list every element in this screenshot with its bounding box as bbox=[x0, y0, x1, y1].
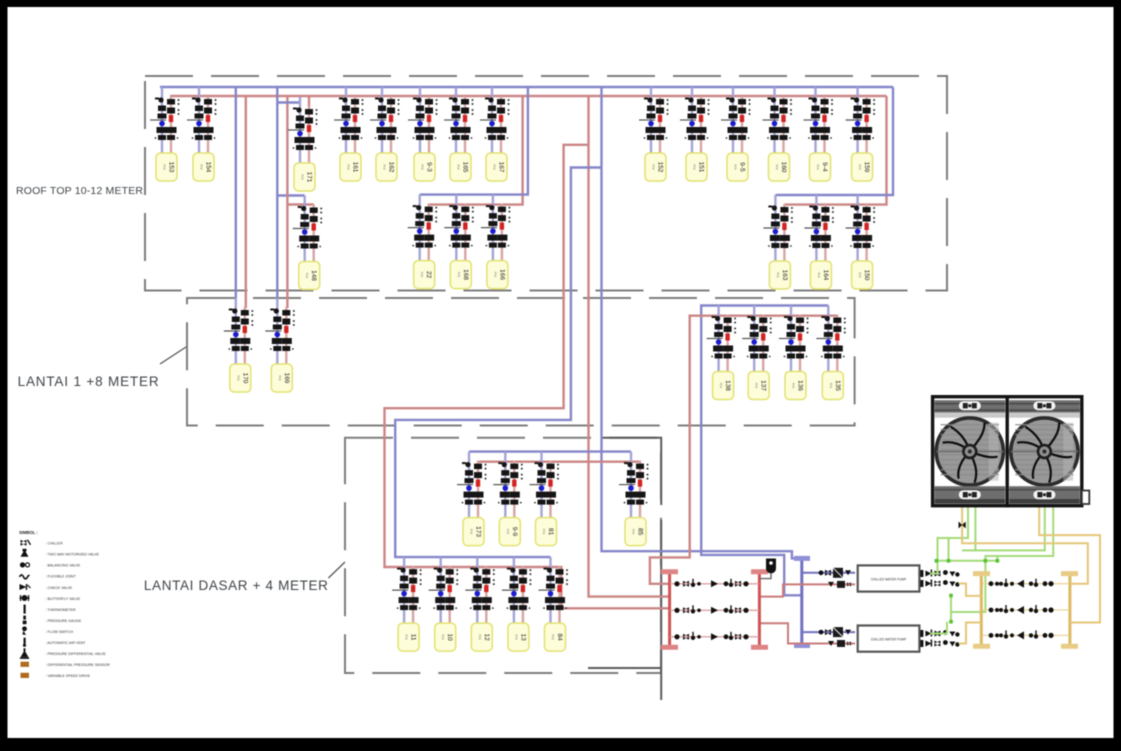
legend item VARIABLE SPEED DRIVE bbox=[21, 673, 30, 678]
pump2 discharge valves bbox=[920, 630, 959, 638]
FCU unit 11 bbox=[392, 557, 422, 651]
FCU unit 12 bbox=[465, 557, 495, 651]
legend item THERMOMETER bbox=[24, 605, 26, 614]
svg-text:FCU: FCU bbox=[163, 164, 167, 169]
yellow manifold row 2 valves bbox=[983, 609, 1068, 611]
svg-text:173: 173 bbox=[475, 526, 482, 537]
riser to FCU 170 (red) bbox=[245, 96, 247, 308]
svg-text:136: 136 bbox=[797, 380, 804, 391]
svg-text:FCU: FCU bbox=[236, 375, 240, 380]
green junction nodes bbox=[935, 559, 939, 563]
yellow manifold row 1 valves bbox=[983, 583, 1068, 585]
svg-text:: CHILLER: : CHILLER bbox=[46, 542, 64, 546]
svg-text:SIMBOL :: SIMBOL : bbox=[19, 530, 38, 535]
condenser green pipe chiller2 bbox=[951, 507, 1053, 612]
FCU unit 135 bbox=[816, 306, 846, 400]
FCU unit 163 bbox=[763, 195, 793, 289]
svg-text:: VARIABLE SPEED DRIVE: : VARIABLE SPEED DRIVE bbox=[46, 674, 91, 678]
lantai1 right group header loop (red) bbox=[650, 316, 839, 584]
FCU unit 167 bbox=[480, 87, 510, 181]
air cooled chiller 1 bbox=[933, 397, 1008, 506]
svg-text:168: 168 bbox=[462, 269, 469, 280]
svg-text:11: 11 bbox=[410, 634, 417, 641]
svg-text:161: 161 bbox=[352, 162, 359, 173]
riser to FCU 169 / branch FCU 148 (red) bbox=[287, 96, 313, 308]
manifold branch row 1 with valves bbox=[670, 583, 759, 585]
yellow pipe chiller1 drop bbox=[962, 507, 1088, 584]
ground floor loop (blue) feeding bottom row bbox=[395, 168, 601, 558]
svg-text:: TWO WAY MOTORIZED VALVE: : TWO WAY MOTORIZED VALVE bbox=[46, 553, 100, 557]
svg-text:167: 167 bbox=[498, 162, 505, 173]
air separator bbox=[766, 559, 776, 574]
svg-text:9-3: 9-3 bbox=[426, 162, 433, 172]
svg-text:FCU: FCU bbox=[858, 272, 862, 277]
FCU unit 168 bbox=[444, 195, 474, 289]
FCU unit 162 bbox=[370, 87, 400, 181]
svg-text:13: 13 bbox=[519, 633, 526, 641]
yellow pump1 discharge run bbox=[959, 584, 982, 596]
ground floor loop (red) feeding bottom row bbox=[385, 145, 670, 609]
svg-text:81: 81 bbox=[547, 528, 554, 536]
riser to FCU 169 / branch FCU 148 (blue) bbox=[277, 87, 304, 300]
yellow manifold row 3 valves bbox=[983, 634, 1068, 636]
svg-text:166: 166 bbox=[498, 269, 505, 280]
lantai 1 floor dashed boundary bbox=[187, 298, 855, 426]
legend item BALANCING VALVE bbox=[20, 562, 30, 567]
svg-text:85: 85 bbox=[637, 528, 644, 536]
svg-text:FCU: FCU bbox=[734, 164, 738, 169]
svg-text:FCU: FCU bbox=[542, 529, 546, 534]
svg-text:160: 160 bbox=[780, 162, 787, 173]
legend item PRESSURE DIFFERENTIAL VALVE bbox=[20, 648, 29, 659]
svg-text:9-4: 9-4 bbox=[821, 162, 828, 172]
svg-text:FCU: FCU bbox=[792, 383, 796, 388]
svg-text:153: 153 bbox=[168, 162, 175, 173]
FCU unit 9-5 bbox=[721, 87, 751, 181]
chiller right side tab bbox=[1082, 491, 1090, 505]
svg-text:FCU: FCU bbox=[470, 529, 474, 534]
riser to roof row2 group (blue) bbox=[420, 87, 528, 195]
svg-text:FCU: FCU bbox=[693, 164, 697, 169]
red distribution manifold left pipe bbox=[668, 572, 671, 648]
manifold branch row 2 with valves bbox=[670, 609, 759, 611]
branch link to FCU 171 (blue) bbox=[277, 101, 300, 103]
svg-text:FCU: FCU bbox=[441, 634, 445, 639]
svg-text:FCU: FCU bbox=[347, 164, 351, 169]
roof top floor dashed boundary bbox=[145, 76, 947, 291]
extra green risers bbox=[949, 538, 998, 561]
main trunk riser (red) down to plant room bbox=[589, 96, 670, 597]
legend item CHILLER bbox=[21, 540, 31, 546]
legend item FLEXIBLE JOINT bbox=[20, 575, 30, 579]
yellow condenser manifold left pipe bbox=[980, 574, 983, 647]
svg-text:FCU: FCU bbox=[383, 164, 387, 169]
svg-text:FCU: FCU bbox=[775, 164, 779, 169]
legend item PRESSURE GAUGE bbox=[23, 616, 27, 625]
svg-text:FCU: FCU bbox=[493, 164, 497, 169]
legend item TWO WAY MOTORIZED VALVE bbox=[21, 549, 29, 557]
svg-text:: THERMOMETER: : THERMOMETER bbox=[46, 608, 76, 612]
pump room wall gray bbox=[588, 438, 661, 700]
lantai dasar leader line bbox=[328, 562, 345, 578]
FCU unit 148 bbox=[293, 196, 323, 290]
FCU unit 84 bbox=[539, 557, 569, 651]
svg-text:9-9: 9-9 bbox=[511, 527, 518, 537]
pump1 discharge valves bbox=[920, 570, 959, 578]
svg-text:: BALANCING VALVE: : BALANCING VALVE bbox=[46, 564, 81, 568]
svg-text:165: 165 bbox=[462, 162, 469, 173]
svg-text:FCU: FCU bbox=[457, 164, 461, 169]
pump2 return branch (red) bbox=[759, 623, 855, 643]
FCU unit 170 bbox=[224, 298, 254, 392]
svg-text:FCU: FCU bbox=[514, 634, 518, 639]
FCU unit 81 bbox=[530, 452, 560, 546]
svg-text:: FLEXIBLE JOINT: : FLEXIBLE JOINT bbox=[46, 575, 77, 579]
pump1 return branch (red) bbox=[759, 584, 855, 596]
yellow pipe chiller2 drop bbox=[1039, 507, 1100, 623]
ground floor row1 header (red) bbox=[479, 461, 641, 463]
riser pair to FCU 170 (blue) bbox=[235, 87, 237, 300]
svg-text:137: 137 bbox=[760, 380, 767, 391]
svg-text:: DIFFERENTIAL PRESSURE SENSO: : DIFFERENTIAL PRESSURE SENSOR bbox=[46, 663, 111, 667]
svg-text:: PRESSURE DIFFERENTIAL VALVE: : PRESSURE DIFFERENTIAL VALVE bbox=[46, 652, 107, 656]
svg-text:: CHECK VALVE: : CHECK VALVE bbox=[46, 586, 73, 590]
condenser green pipe chiller1 a bbox=[930, 507, 968, 574]
svg-text:22: 22 bbox=[425, 271, 432, 279]
ground floor row1 header (blue) bbox=[469, 450, 631, 452]
FCU unit 9-3 bbox=[408, 87, 438, 181]
FCU unit 164 bbox=[804, 195, 834, 289]
svg-text:FCU: FCU bbox=[719, 383, 723, 388]
condenser green pipe chiller1 b bbox=[975, 507, 1044, 550]
svg-text:163: 163 bbox=[781, 270, 788, 281]
svg-text:9-5: 9-5 bbox=[739, 162, 746, 172]
svg-text:FCU: FCU bbox=[776, 272, 780, 277]
svg-text:FCU: FCU bbox=[829, 383, 833, 388]
green junction column bbox=[930, 561, 997, 634]
svg-text:FCU: FCU bbox=[200, 164, 204, 169]
svg-text:FCU: FCU bbox=[551, 634, 555, 639]
manifold branch row 3 with valves bbox=[670, 636, 759, 638]
riser to roof row2 group (red) bbox=[429, 96, 523, 205]
FCU unit 136 bbox=[779, 306, 809, 400]
svg-text:FCU: FCU bbox=[632, 529, 636, 534]
svg-text:151: 151 bbox=[698, 162, 705, 173]
legend item FLOW SWITCH bbox=[22, 626, 27, 635]
pump1 suction branch (blue) bbox=[802, 572, 855, 574]
lantai dasar floor dashed boundary bbox=[345, 438, 661, 673]
svg-text:FCU: FCU bbox=[817, 272, 821, 277]
svg-text:LANTAI 1 +8 METER: LANTAI 1 +8 METER bbox=[18, 374, 159, 389]
FCU unit 9-9 bbox=[493, 452, 523, 546]
legend item DIFFERENTIAL PRESSURE SENSOR bbox=[21, 662, 30, 667]
svg-text:CHILLED WATER PUMP: CHILLED WATER PUMP bbox=[871, 578, 907, 582]
svg-text:: BUTTERFLY VALVE: : BUTTERFLY VALVE bbox=[46, 597, 81, 601]
svg-text:FCU: FCU bbox=[652, 164, 656, 169]
svg-text:159: 159 bbox=[863, 162, 870, 173]
svg-text:ROOF TOP 10-12 METER: ROOF TOP 10-12 METER bbox=[16, 185, 143, 197]
svg-text:FCU: FCU bbox=[305, 273, 309, 278]
pump2 suction branch (blue) bbox=[802, 631, 855, 633]
yellow pump2 discharge run bbox=[959, 623, 982, 644]
FCU unit 153 bbox=[150, 87, 180, 181]
chilled water pump 1 bbox=[858, 565, 920, 591]
lantai1 right group header loop (blue) bbox=[701, 306, 828, 596]
svg-text:FCU: FCU bbox=[493, 272, 497, 277]
svg-text:: FLOW SWITCH: : FLOW SWITCH bbox=[46, 630, 74, 634]
FCU unit 151 bbox=[680, 87, 710, 181]
svg-text:169: 169 bbox=[283, 373, 290, 384]
FCU unit 150 bbox=[846, 195, 876, 289]
svg-text:138: 138 bbox=[724, 380, 731, 391]
svg-text:FCU: FCU bbox=[421, 164, 425, 169]
FCU unit 152 bbox=[639, 87, 669, 181]
svg-text:: PRESSURE GAUGE: : PRESSURE GAUGE bbox=[46, 619, 82, 623]
FCU unit 138 bbox=[707, 306, 737, 400]
FCU unit 166 bbox=[481, 195, 511, 289]
pump1 inlet valves bbox=[819, 568, 851, 578]
FCU unit 154 bbox=[187, 87, 217, 181]
svg-text:170: 170 bbox=[241, 373, 248, 384]
FCU unit 13 bbox=[502, 557, 532, 651]
FCU unit 10 bbox=[429, 557, 459, 651]
svg-text:FCU: FCU bbox=[420, 272, 424, 277]
FCU unit 169 bbox=[265, 298, 295, 392]
svg-text:162: 162 bbox=[388, 162, 395, 173]
FCU unit 159 bbox=[846, 87, 876, 181]
svg-text:171: 171 bbox=[306, 172, 313, 183]
FCU unit 85 bbox=[619, 452, 649, 546]
FCU unit 9-4 bbox=[804, 87, 834, 181]
svg-text:CHILLED WATER PUMP: CHILLED WATER PUMP bbox=[871, 638, 907, 642]
FCU unit 22 bbox=[408, 195, 438, 289]
svg-text:84: 84 bbox=[556, 633, 563, 641]
svg-text:135: 135 bbox=[834, 380, 841, 391]
yellow condenser manifold right pipe bbox=[1068, 574, 1071, 647]
svg-text:FCU: FCU bbox=[506, 529, 510, 534]
chilled water vertical header pipe (blue) bbox=[800, 558, 803, 645]
svg-text:10: 10 bbox=[446, 633, 453, 641]
FCU unit 137 bbox=[742, 306, 772, 400]
svg-text:LANTAI DASAR + 4 METER: LANTAI DASAR + 4 METER bbox=[144, 578, 328, 593]
svg-text:FCU: FCU bbox=[405, 634, 409, 639]
lantai 1 leader line bbox=[160, 347, 186, 364]
FCU unit 160 bbox=[763, 87, 793, 181]
svg-text:154: 154 bbox=[205, 162, 212, 173]
roof right riser (blue) to row2 bbox=[775, 87, 893, 195]
svg-text:FCU: FCU bbox=[816, 164, 820, 169]
svg-text:FCU: FCU bbox=[301, 174, 305, 179]
FCU unit 165 bbox=[444, 87, 474, 181]
red distribution manifold right pipe bbox=[758, 572, 761, 648]
roof right riser (red) to row2 bbox=[784, 96, 886, 205]
legend item BUTTERFLY VALVE bbox=[20, 595, 30, 601]
legend item CHECK VALVE bbox=[20, 584, 31, 590]
FCU unit 173 bbox=[457, 452, 487, 546]
air cooled chiller 2 bbox=[1007, 397, 1082, 506]
chilled water pump 2 bbox=[858, 626, 920, 652]
svg-text:12: 12 bbox=[483, 633, 490, 641]
pump2 inlet valves bbox=[819, 627, 851, 637]
svg-text:150: 150 bbox=[863, 270, 870, 281]
legend item AUTOMATIC AIR VENT bbox=[23, 638, 26, 647]
svg-text:FCU: FCU bbox=[755, 383, 759, 388]
roof chilled water supply header (blue) bbox=[160, 86, 893, 88]
roof chilled water return header (red) bbox=[170, 95, 887, 97]
FCU unit 171 bbox=[288, 97, 318, 191]
svg-text:FCU: FCU bbox=[278, 375, 282, 380]
FCU unit 161 bbox=[334, 87, 364, 181]
svg-text:FCU: FCU bbox=[457, 272, 461, 277]
valve on chiller1 yellow drop bbox=[959, 522, 966, 529]
svg-text:152: 152 bbox=[657, 162, 664, 173]
svg-text:FCU: FCU bbox=[858, 164, 862, 169]
branch link to FCU 171 (red) bbox=[308, 96, 310, 107]
svg-text:FCU: FCU bbox=[478, 634, 482, 639]
svg-text:: AUTOMATIC AIR VENT: : AUTOMATIC AIR VENT bbox=[46, 641, 87, 645]
svg-text:164: 164 bbox=[822, 270, 829, 281]
svg-text:148: 148 bbox=[310, 270, 317, 281]
main trunk riser (blue) down to plant room bbox=[602, 87, 802, 558]
